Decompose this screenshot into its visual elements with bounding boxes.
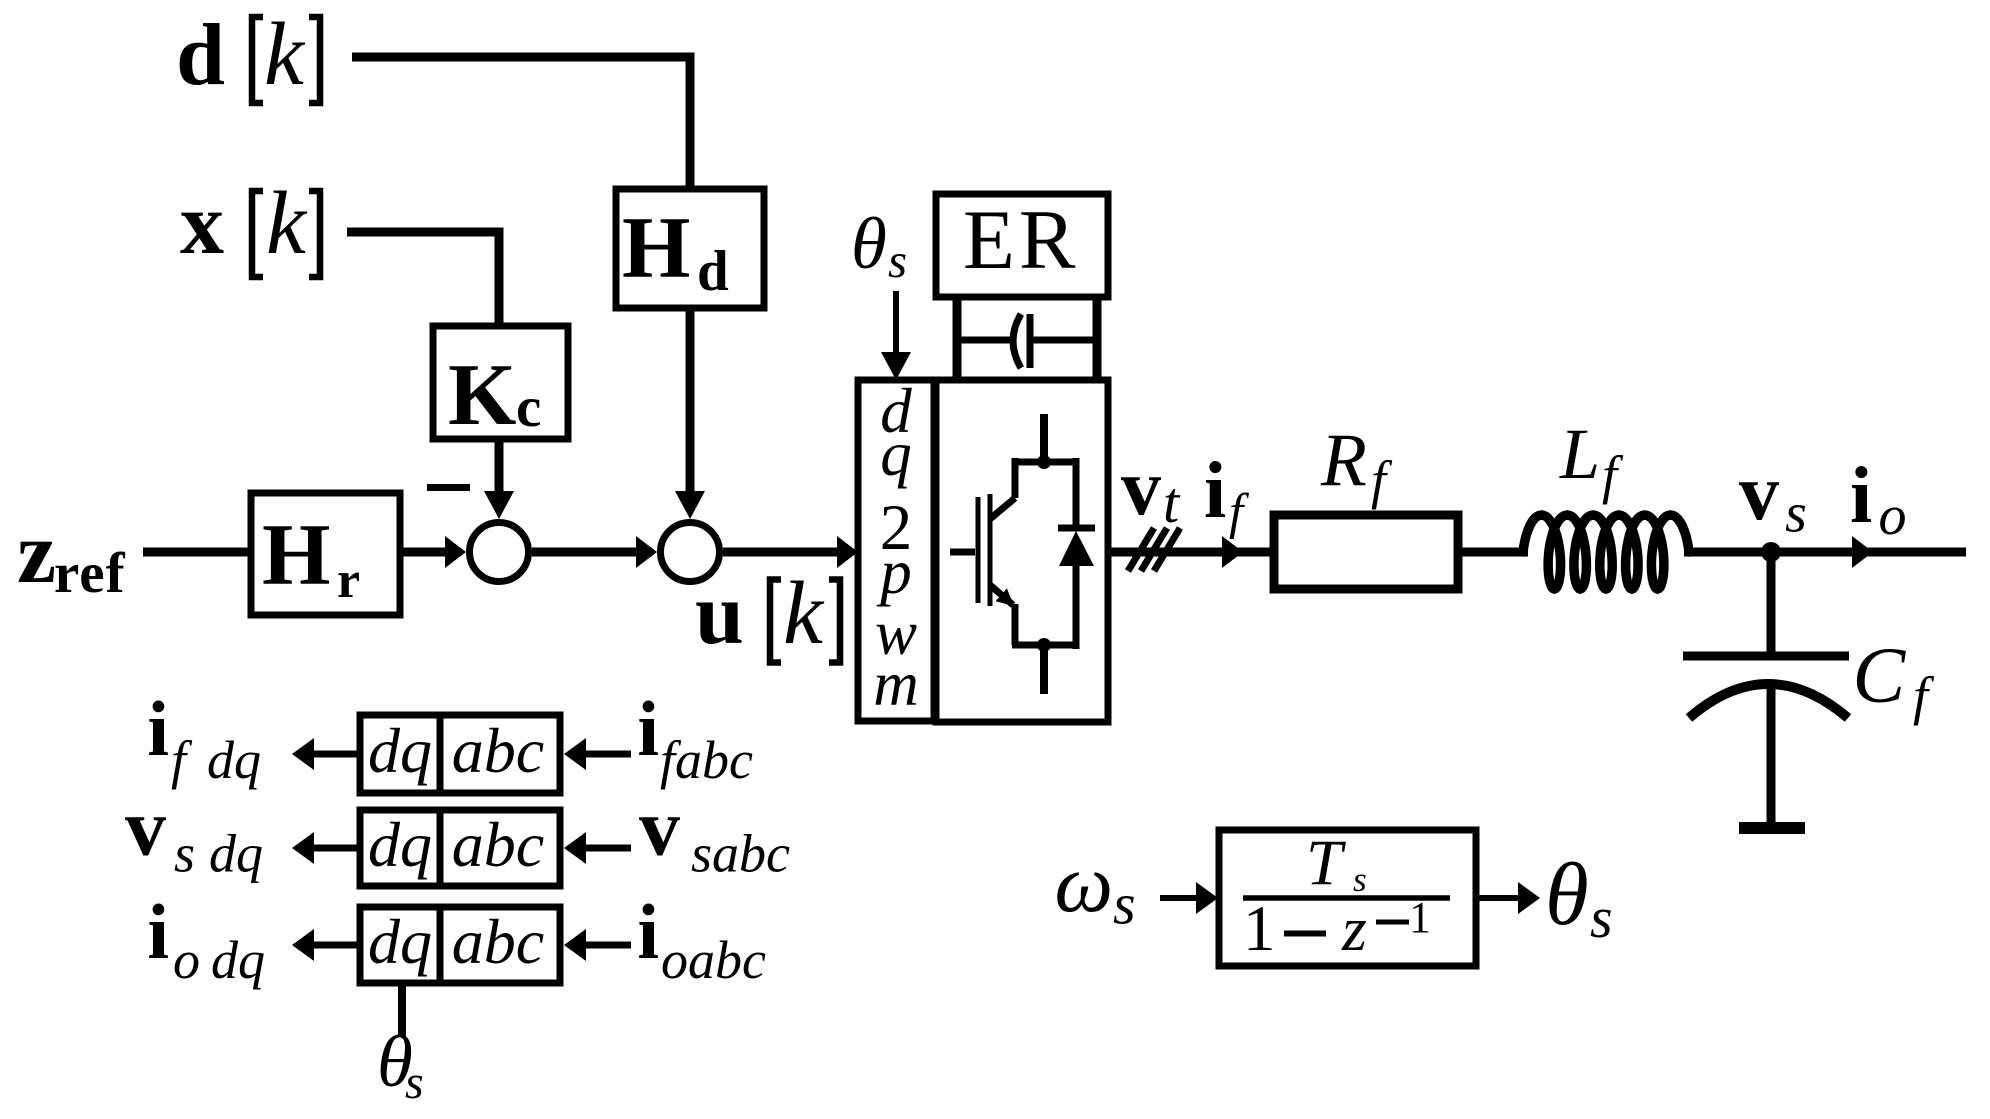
arrow into sum S1 left [445, 536, 466, 568]
svg-text:s: s [888, 233, 907, 288]
wire dc-link right rail [1093, 297, 1102, 380]
block ER [936, 194, 1108, 297]
node igbt bottom junction [1037, 638, 1051, 652]
svg-text:dq: dq [209, 824, 263, 884]
wire igbt top stub [1040, 414, 1048, 462]
wire Hd to sum S2 [686, 308, 695, 502]
wire x[k] to Kc [347, 232, 499, 326]
svg-text:i: i [1204, 447, 1226, 535]
wire diode branch upper [1073, 458, 1080, 531]
svg-text:s: s [174, 824, 195, 884]
wire igbt gate lead [950, 549, 975, 556]
arrow out of Ts block [1518, 882, 1540, 914]
svg-text:abc: abc [452, 715, 544, 786]
svg-text:d: d [697, 240, 729, 303]
svg-text:z: z [17, 505, 56, 602]
wire Rf to Lf [1458, 548, 1528, 557]
svg-text:θ: θ [851, 203, 887, 284]
svg-text:z: z [1341, 893, 1367, 964]
svg-text:i: i [637, 888, 659, 975]
block converter [936, 380, 1108, 722]
svg-text:o: o [173, 930, 200, 990]
wire igbt emitter diagonal [990, 585, 1013, 605]
svg-text:abc: abc [452, 809, 544, 880]
arrow out left row2 vsdq [314, 845, 360, 852]
wire vs node down to Cf [1767, 552, 1776, 656]
svg-text:abc: abc [452, 906, 544, 977]
minus sign at S1 [427, 484, 470, 491]
wire theta_s arrow [893, 291, 899, 356]
svg-text:dq: dq [207, 730, 261, 790]
svg-text:dq: dq [368, 715, 432, 786]
arrow in right row3 iodq [586, 942, 631, 949]
wire dc-link bus right [1029, 337, 1097, 344]
minus sign denominator [1284, 931, 1326, 937]
svg-text:dq: dq [368, 809, 432, 880]
transistor igbt gate bar [976, 497, 981, 603]
ground [1739, 822, 1805, 834]
arrow into Ts block [1196, 882, 1218, 914]
fraction bar [1243, 895, 1450, 901]
svg-text:dq: dq [211, 930, 265, 990]
block Hd [616, 189, 764, 308]
svg-text:c: c [516, 376, 541, 439]
arrow in right row2 vsdq [586, 845, 631, 852]
svg-text:s: s [1785, 483, 1807, 545]
summing junction S2 [661, 523, 720, 582]
svg-text:ref: ref [54, 542, 126, 605]
transistor igbt channel bar [988, 494, 993, 606]
wire Ts out arrow [1476, 895, 1520, 901]
arrow theta_s into dq2pwm top [881, 352, 911, 380]
svg-text:u: u [695, 566, 744, 663]
wire diode branch lower [1073, 563, 1080, 649]
svg-text:L: L [1559, 414, 1600, 494]
wire Lf to node vs [1684, 548, 1966, 557]
svg-text:v: v [639, 782, 680, 873]
summing junction S1 [470, 523, 529, 582]
svg-text:oabc: oabc [661, 930, 766, 990]
wire theta_s stub under row3 [398, 983, 406, 1037]
block Kc [433, 326, 568, 439]
svg-text:i: i [147, 888, 169, 975]
svg-text:s: s [1113, 872, 1136, 937]
svg-text:r: r [337, 552, 360, 609]
svg-text:v: v [1739, 449, 1779, 537]
wire igbt top bar [1012, 459, 1076, 466]
svg-text:sabc: sabc [691, 824, 790, 884]
svg-text:H: H [622, 200, 690, 297]
wire Hr to sum S1 [400, 548, 446, 557]
svg-text:ω: ω [1055, 837, 1114, 929]
arrow in right row1 ifdq [586, 751, 631, 758]
block Ts integrator [1219, 830, 1476, 966]
svg-text:d: d [176, 7, 225, 104]
wire igbt collector diagonal [990, 498, 1015, 519]
svg-text:s: s [1590, 885, 1613, 950]
arrow out left row3 iodq [314, 942, 360, 949]
diode cathode bar [1058, 525, 1095, 532]
diode triangle [1059, 531, 1094, 566]
wire omega_s arrow [1160, 895, 1200, 901]
wire Kc to sum S1 [495, 439, 504, 502]
resistor Rf [1274, 515, 1458, 589]
inductor Lf coil [1523, 515, 1689, 589]
svg-text:v: v [1121, 444, 1161, 532]
wire igbt bottom stub [1040, 645, 1048, 694]
wire converter to Rf [1108, 548, 1274, 557]
arrow out left row1 ifdq [314, 751, 360, 758]
svg-text:t: t [1163, 470, 1181, 535]
block dq|abc row3 iodq [360, 907, 560, 983]
capacitor Cf curved plate [1689, 684, 1848, 718]
svg-text:K: K [448, 347, 516, 444]
svg-text:ER: ER [963, 193, 1080, 287]
svg-text:C: C [1853, 633, 1907, 720]
svg-text:s: s [405, 1056, 424, 1109]
arrow into dq2pwm [837, 536, 858, 568]
arrow igbt emitter [996, 588, 1014, 606]
wire igbt bottom bar [1012, 642, 1076, 649]
capacitor Cf top plate [1683, 652, 1849, 661]
svg-text:1: 1 [1243, 893, 1276, 965]
arrow into sum S2 left [636, 536, 657, 568]
superscript minus [1376, 920, 1409, 925]
svg-text:x: x [180, 176, 224, 273]
block dq|abc row1 ifdq [360, 715, 560, 793]
wire z_ref to Hr [143, 548, 251, 557]
wire dc-link bus left [957, 337, 1014, 344]
wire Cf to ground [1767, 688, 1776, 824]
wire igbt collector drop [1012, 458, 1019, 498]
wire S1 to S2 [532, 548, 637, 557]
svg-text:R: R [1320, 419, 1367, 502]
slash marks x3 on vt wire [1128, 528, 1154, 571]
block Hr [251, 493, 400, 615]
svg-text:i: i [147, 685, 169, 772]
wire S2 to dq2pwm [723, 548, 838, 557]
svg-text:p: p [876, 537, 912, 607]
svg-text:H: H [262, 507, 330, 604]
capacitor dc-link straight plate [1027, 314, 1034, 368]
arrow i_f on wire [1222, 536, 1243, 568]
wire d[k] to Hd [352, 57, 690, 189]
svg-text:q: q [880, 419, 912, 489]
svg-text:v: v [125, 782, 166, 873]
node igbt top junction [1037, 455, 1051, 469]
svg-text:θ: θ [1545, 846, 1589, 944]
svg-text:k: k [266, 174, 308, 273]
svg-text:1: 1 [1409, 893, 1431, 942]
svg-text:o: o [1879, 485, 1907, 547]
wire dc-link left rail [953, 297, 962, 380]
svg-text:dq: dq [368, 906, 432, 977]
arrow into sum S2 top [675, 491, 705, 519]
block dq|abc row2 vsdq [360, 810, 560, 886]
arrow into sum S1 top [484, 491, 514, 519]
arrow i_o on wire [1852, 536, 1873, 568]
svg-text:T: T [1306, 827, 1346, 899]
svg-text:i: i [1850, 452, 1872, 540]
capacitor dc-link curved plate [1013, 314, 1021, 368]
svg-text:k: k [264, 5, 306, 104]
svg-text:m: m [873, 649, 919, 719]
block dq2pwm [858, 380, 934, 721]
node v_s junction dot [1761, 542, 1781, 562]
svg-text:k: k [783, 564, 825, 663]
wire igbt emitter drop [1012, 604, 1019, 645]
svg-text:i: i [637, 685, 659, 772]
